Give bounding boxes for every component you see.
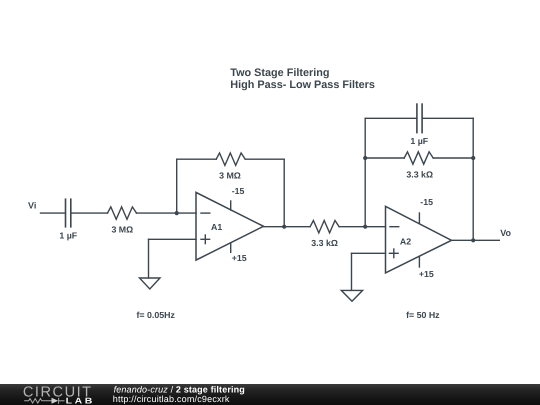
svg-text:LAB: LAB (66, 396, 95, 405)
wire A1 non-inverting input (149, 239, 197, 278)
ground G2 (341, 290, 362, 301)
op-amp A2 (386, 206, 452, 273)
wire Vi to C1 (41, 212, 66, 214)
svg-text:3.3 kΩ: 3.3 kΩ (311, 238, 338, 248)
wire C2 top left segment (365, 117, 417, 119)
svg-text:-15: -15 (232, 186, 245, 196)
wire feedback top right segment (245, 158, 284, 160)
op-amp A1 (196, 192, 264, 260)
wire A1 output (264, 226, 311, 228)
A2 supply pin +15 (419, 256, 434, 279)
label f= 0.05Hz (137, 310, 176, 320)
svg-text:3.3 kΩ: 3.3 kΩ (406, 169, 433, 179)
logo resistor-diode symbol (24, 398, 64, 404)
wire R4 left segment (365, 157, 404, 159)
svg-text:3 MΩ: 3 MΩ (111, 224, 133, 234)
svg-text:1 µF: 1 µF (59, 230, 77, 240)
junction A1 inverting node (175, 211, 179, 215)
svg-text:f= 50 Hz: f= 50 Hz (406, 310, 440, 320)
capacitor C1 1 µF (59, 199, 77, 240)
node Vi (28, 200, 36, 210)
title line 1 (230, 67, 329, 79)
wire feedback top left segment (177, 158, 217, 160)
capacitor C2 1 µF (410, 104, 428, 146)
junction A1 output node (282, 225, 286, 229)
wire R1 to A1 inverting input (137, 212, 197, 214)
wire A2 feedback right vertical (472, 118, 474, 240)
svg-text:Vi: Vi (28, 200, 36, 210)
A1 supply pin +15 (231, 243, 247, 263)
wire feedback right vertical to output node (283, 159, 285, 227)
title line 2 (230, 79, 375, 91)
junction output node (471, 238, 475, 242)
wire R4 right segment (433, 157, 473, 159)
junction R4 right node (471, 156, 475, 160)
A2 supply pin -15 (419, 197, 433, 224)
wire feedback left vertical (176, 159, 178, 213)
resistor R2 3 MΩ feedback (216, 153, 245, 180)
resistor R1 3 MΩ (108, 207, 137, 235)
CircuitLab logo wordmark (23, 384, 95, 405)
svg-text:fenando-cruz / 2 stage filteri: fenando-cruz / 2 stage filtering (114, 384, 245, 394)
junction A2 inverting node (363, 225, 367, 229)
svg-text:Vo: Vo (500, 228, 511, 238)
svg-text:3 MΩ: 3 MΩ (219, 170, 241, 180)
resistor R4 3.3 kΩ feedback (404, 152, 433, 180)
A1 supply pin -15 (231, 186, 245, 210)
wire R3 to A2 inverting input (339, 226, 385, 228)
wire C1 to R1 (71, 212, 107, 214)
svg-text:+15: +15 (232, 253, 247, 263)
svg-text:+15: +15 (419, 269, 434, 279)
ground G1 (140, 278, 161, 289)
junction R4 left node (363, 156, 367, 160)
svg-text:A2: A2 (400, 236, 411, 246)
svg-text:Two Stage Filtering: Two Stage Filtering (230, 67, 329, 79)
footer circuit name (113, 384, 245, 404)
svg-text:A1: A1 (211, 222, 222, 232)
label f= 50 Hz (406, 310, 440, 320)
wire C2 top right segment (423, 117, 474, 119)
wire A2 output to Vo (452, 239, 500, 241)
svg-text:f= 0.05Hz: f= 0.05Hz (137, 310, 176, 320)
wire A2 feedback left vertical (364, 118, 366, 226)
svg-text:High Pass- Low Pass Filters: High Pass- Low Pass Filters (230, 79, 375, 91)
wire A2 non-inverting input (352, 253, 386, 290)
svg-text:-15: -15 (420, 197, 433, 207)
resistor R3 3.3 kΩ (310, 221, 339, 248)
svg-text:http://circuitlab.com/c9ecxrk: http://circuitlab.com/c9ecxrk (113, 394, 230, 404)
node Vo (500, 228, 511, 238)
svg-text:1 µF: 1 µF (410, 136, 428, 146)
footer bar (0, 384, 540, 405)
